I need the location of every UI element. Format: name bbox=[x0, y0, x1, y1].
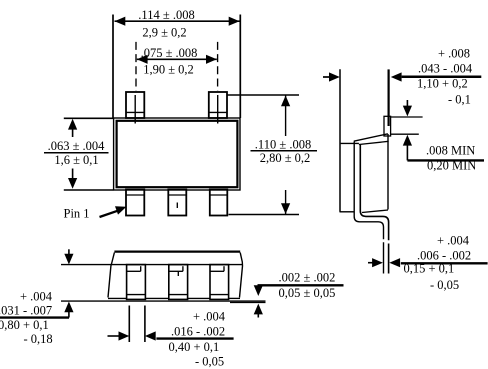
svg-text:0,05 ± 0,05: 0,05 ± 0,05 bbox=[279, 286, 336, 300]
side view right extension line (package top) bbox=[388, 69, 390, 126]
dimension .043/1,10 arrows at top of side view bbox=[323, 72, 402, 81]
dimension .016 arrows bbox=[108, 331, 156, 340]
dimension text + .008 bbox=[438, 47, 470, 61]
front view body right edge bbox=[240, 253, 243, 298]
dashed extension line left for .075 dim bbox=[135, 42, 137, 91]
dimension text .002 ± .002 bbox=[279, 271, 336, 285]
top view: extension line left for .114 dim bbox=[112, 15, 114, 119]
side view body right edge bbox=[387, 134, 389, 210]
side view body top slant outer bbox=[354, 134, 388, 141]
fraction bar for .016 (doubles as arrow line) bbox=[156, 337, 233, 339]
dimension text 0,80 + 0,1 bbox=[0, 318, 49, 332]
svg-text:1,6 ± 0,1: 1,6 ± 0,1 bbox=[54, 153, 98, 167]
dimension .016/0,40 extension lines under lead 1 bbox=[129, 306, 145, 343]
svg-text:0,80 + 0,1: 0,80 + 0,1 bbox=[0, 318, 49, 332]
dimension text .008 MIN bbox=[426, 144, 475, 158]
svg-text:.008 MIN: .008 MIN bbox=[426, 144, 475, 158]
svg-text:2,9 ± 0,2: 2,9 ± 0,2 bbox=[142, 26, 186, 40]
svg-text:- 0,1: - 0,1 bbox=[448, 93, 471, 107]
dimension text - 0,05 bbox=[195, 355, 224, 369]
front view parting line with left extension bbox=[61, 264, 243, 266]
dimension text + .004 (006 block) bbox=[437, 234, 470, 248]
top view pin bottom-left (pin 1) bbox=[126, 190, 144, 216]
side view ledge line bbox=[341, 142, 359, 144]
svg-text:1,10 + 0,2: 1,10 + 0,2 bbox=[417, 77, 468, 91]
dimension .110/2,80: extension lines at right of top view bbox=[227, 95, 299, 215]
svg-text:0,20 MIN: 0,20 MIN bbox=[427, 159, 476, 173]
side view lead outer line with bend and break bbox=[354, 142, 383, 274]
side view body top slant inner bbox=[359, 141, 389, 144]
fraction bar for .008 MIN (leader) bbox=[407, 159, 484, 161]
lead tip line for standoff bbox=[230, 301, 266, 303]
dimension text - 0,18 bbox=[24, 332, 53, 346]
dimension text - 0,1 bbox=[448, 93, 471, 107]
dimension text 1,90 ± 0,2 bbox=[143, 63, 194, 77]
front view lead 1 bbox=[127, 265, 146, 300]
dimension text .110 ± .008 bbox=[255, 138, 311, 152]
dimension .114/2,9 body width: line and arrowheads bbox=[115, 17, 240, 26]
dimension .110/2,80 vertical line with arrowheads bbox=[281, 96, 290, 215]
svg-text:.110 ± .008: .110 ± .008 bbox=[255, 138, 311, 152]
dimension .031/0,80 arrows at left bbox=[64, 249, 73, 317]
fraction bar for .006 (doubles as arrow line) bbox=[401, 262, 488, 264]
top view body outer outline bbox=[114, 118, 240, 190]
svg-text:Pin 1: Pin 1 bbox=[64, 207, 90, 221]
dimension .063/1,6 body depth: extension lines and arrows at left bbox=[64, 118, 114, 190]
fraction bar for .110 bbox=[251, 150, 318, 152]
dimension .002/0,05 standoff leader and arrows bbox=[254, 285, 263, 317]
svg-text:+ .004: + .004 bbox=[193, 310, 226, 324]
side view foot line at bottom of left edge bbox=[340, 211, 355, 213]
svg-text:0,15 + 0,1: 0,15 + 0,1 bbox=[404, 262, 455, 276]
dimension text .016 - .002 bbox=[171, 325, 225, 339]
svg-text:.063 ± .004: .063 ± .004 bbox=[48, 139, 106, 153]
dimension .006/0,15 lead thickness arrows bbox=[368, 258, 400, 267]
dimension text 2,80 ± 0,2 bbox=[260, 151, 311, 165]
front view lead 2 bbox=[169, 265, 188, 300]
Pin 1 leader arrow bbox=[100, 206, 127, 217]
svg-text:.002 ± .002: .002 ± .002 bbox=[279, 271, 336, 285]
dimension text 0,15 + 0,1 bbox=[404, 262, 455, 276]
dimension text 0,20 MIN bbox=[427, 159, 476, 173]
svg-text:+ .008: + .008 bbox=[438, 47, 470, 61]
dimension text .031 - .007 bbox=[0, 304, 52, 318]
dimension text 0,05 ± 0,05 bbox=[279, 286, 336, 300]
fraction bar for .063 bbox=[44, 152, 109, 154]
dimension .008 MIN arrows bbox=[403, 100, 412, 160]
seating plane line bbox=[61, 300, 266, 302]
top view body inner outline bbox=[117, 121, 238, 187]
side view lead end box at top bbox=[384, 116, 391, 136]
side view left edge (seating side) bbox=[339, 69, 341, 212]
dimension text - 0,05 bbox=[430, 278, 459, 292]
fraction bar for .031 bbox=[0, 316, 69, 318]
svg-text:- 0,05: - 0,05 bbox=[430, 278, 459, 292]
reference line for .008 MIN top bbox=[391, 116, 423, 118]
side view body bottom slant bbox=[362, 210, 388, 213]
front view body top edge bbox=[114, 251, 240, 253]
fraction bar for .002 (leader) bbox=[258, 284, 344, 286]
dimension text 0,40 + 0,1 bbox=[169, 340, 220, 354]
top view: extension line right for .114 dim bbox=[239, 15, 241, 119]
dimension text 1,6 ± 0,1 bbox=[54, 153, 98, 167]
top view pin top-right bbox=[209, 92, 227, 124]
side view lead inner line with bend and break bbox=[360, 145, 388, 274]
dimension text + .004 (016 block) bbox=[193, 310, 226, 324]
dimension .075/1,90 pin spacing: line and arrowheads bbox=[137, 55, 217, 64]
svg-text:+ .004: + .004 bbox=[437, 234, 470, 248]
top view pin bottom-middle bbox=[168, 190, 186, 216]
svg-text:+ .004: + .004 bbox=[20, 290, 53, 304]
dimension text 2,9 ± 0,2 bbox=[142, 26, 186, 40]
dimension text 1,10 + 0,2 bbox=[417, 77, 468, 91]
svg-text:- 0,05: - 0,05 bbox=[195, 355, 224, 369]
svg-text:- 0,18: - 0,18 bbox=[24, 332, 53, 346]
svg-text:.031 - .007: .031 - .007 bbox=[0, 304, 52, 318]
svg-text:1,90 ± 0,2: 1,90 ± 0,2 bbox=[143, 63, 194, 77]
svg-text:.006 - .002: .006 - .002 bbox=[417, 249, 471, 263]
front view body bottom edge bbox=[108, 297, 240, 299]
svg-text:.016 - .002: .016 - .002 bbox=[171, 325, 225, 339]
dimension text .075 ± .008 bbox=[141, 46, 198, 60]
dimension text .006 - .002 bbox=[417, 249, 471, 263]
svg-text:.114 ± .008: .114 ± .008 bbox=[138, 8, 194, 22]
reference line for .008 MIN bottom bbox=[391, 133, 419, 135]
front view lead 3 bbox=[210, 265, 229, 300]
svg-text:.043 - .004: .043 - .004 bbox=[418, 62, 473, 76]
front view body left edge bbox=[108, 253, 114, 298]
Pin 1 label bbox=[64, 207, 90, 221]
dimension text .114 ± .008 bbox=[138, 8, 194, 22]
dimension text + .004 (031 block) bbox=[20, 290, 53, 304]
fraction bar for .043 (doubles as arrow line) bbox=[402, 76, 482, 79]
dashed extension line right for .075 dim bbox=[217, 42, 219, 91]
svg-text:.075 ± .008: .075 ± .008 bbox=[141, 46, 198, 60]
top view pin bottom-right bbox=[210, 190, 228, 216]
svg-text:2,80 ± 0,2: 2,80 ± 0,2 bbox=[260, 151, 311, 165]
dimension text .063 ± .004 bbox=[48, 139, 106, 153]
svg-text:0,40 + 0,1: 0,40 + 0,1 bbox=[169, 340, 220, 354]
dimension text .043 - .004 bbox=[418, 62, 473, 76]
top view pin top-left bbox=[126, 92, 144, 124]
